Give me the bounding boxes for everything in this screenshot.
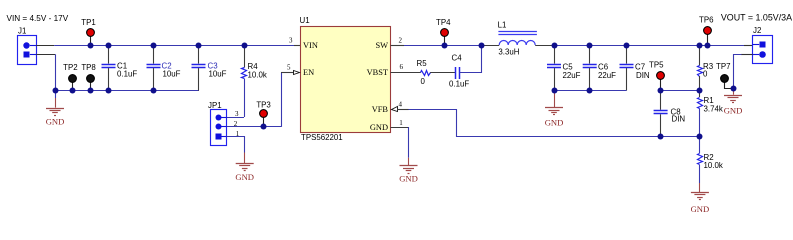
svg-text:GND: GND	[724, 105, 743, 115]
ground GND1 (below J1)	[46, 91, 65, 127]
wire JP1 pin2 row	[227, 126, 281, 128]
node C5 bottom	[552, 88, 558, 94]
wire J1 pin1 stub (black)	[36, 45, 54, 47]
node C1 bottom	[106, 88, 112, 94]
wire EN riser	[281, 72, 283, 127]
node L1 out / C5 top	[552, 43, 558, 49]
testpoint TP8	[81, 63, 96, 91]
node junction dots	[53, 43, 737, 140]
svg-text:GND: GND	[691, 204, 710, 214]
wire VIN top rail	[54, 45, 294, 47]
testpoint TP4	[436, 18, 451, 45]
svg-text:5: 5	[287, 64, 291, 72]
svg-text:VIN: VIN	[303, 41, 318, 50]
wire U1 GND drop	[408, 127, 410, 158]
node C2 top	[151, 43, 157, 49]
svg-text:0: 0	[703, 69, 708, 78]
wire J2 pin2 to GND corner	[734, 55, 742, 89]
svg-text:TPS562201: TPS562201	[301, 133, 343, 142]
svg-text:TP3: TP3	[256, 101, 271, 110]
resistor R2	[698, 136, 723, 183]
ground GND3 (below U1)	[399, 158, 418, 184]
wire JP1 pin1 to GND corner	[227, 137, 245, 153]
node C1 top	[106, 43, 112, 49]
wire bottom GND rail left	[55, 90, 199, 92]
node R1/R2 feedback	[697, 134, 703, 140]
node TP3 junction	[261, 124, 267, 130]
wire C4 to SW node	[460, 46, 482, 73]
node TP8 bottom	[88, 88, 94, 94]
resistor R3	[698, 45, 714, 90]
wire J1 pin2 drop	[55, 54, 57, 90]
wire SW rail	[404, 45, 482, 47]
svg-text:3.74k: 3.74k	[704, 104, 723, 113]
wire R5 to C4 (black)	[430, 72, 455, 74]
node TP1/VIN rail	[88, 43, 94, 49]
ground GND2 (below JP1)	[235, 153, 254, 183]
svg-text:1: 1	[399, 119, 403, 127]
resistor R1	[698, 90, 723, 136]
node C6 bottom	[587, 88, 593, 94]
node C3 top	[196, 43, 202, 49]
node C7 top	[624, 43, 630, 49]
svg-text:6: 6	[400, 63, 404, 71]
capacitor C4	[449, 54, 469, 89]
node TP2 bottom	[70, 88, 76, 94]
wire VFB stub (black)	[397, 109, 409, 111]
ground GND4 (below C5)	[545, 91, 564, 128]
svg-text:TP8: TP8	[81, 63, 96, 72]
svg-text:TP7: TP7	[716, 62, 730, 71]
svg-text:TP5: TP5	[649, 61, 664, 70]
capacitor C1	[102, 45, 138, 91]
svg-text:R5: R5	[417, 59, 428, 68]
wire EN stub (black)	[281, 72, 295, 74]
wire U1 GND pin stub (black)	[391, 127, 409, 129]
svg-text:0.1uF: 0.1uF	[117, 70, 137, 79]
wire J1 pin2 stub (black)	[36, 54, 55, 56]
svg-text:JP1: JP1	[208, 101, 222, 110]
capacitor C6	[583, 45, 616, 91]
svg-text:J2: J2	[753, 26, 761, 35]
connector J2	[753, 36, 773, 64]
node TP6 rail	[705, 43, 711, 49]
svg-text:GND: GND	[370, 123, 388, 132]
wire VIN pin stub	[294, 45, 300, 47]
testpoint TP1	[81, 18, 95, 45]
capacitor C3	[192, 45, 227, 91]
wire VBST stub (black)	[391, 72, 421, 74]
testpoint TP6	[699, 15, 714, 45]
capacitor C5	[547, 45, 581, 91]
svg-text:J1: J1	[18, 26, 26, 35]
svg-text:VIN = 4.5V - 17V: VIN = 4.5V - 17V	[7, 14, 69, 23]
svg-text:GND: GND	[46, 116, 65, 126]
node TP5/C8	[658, 88, 664, 94]
wire SW stub (black)	[391, 45, 405, 47]
testpoint TP7	[716, 62, 733, 88]
svg-text:10uF: 10uF	[163, 70, 181, 79]
node J2 GND corner	[731, 86, 737, 92]
connector J1	[18, 36, 37, 65]
svg-text:3: 3	[289, 37, 293, 45]
node C4 riser/SW	[479, 43, 485, 49]
svg-text:TP1: TP1	[81, 18, 95, 27]
ground GND6 (below R2)	[691, 183, 710, 214]
wire JP1 pin3 to R4	[227, 117, 244, 119]
node C6 top	[587, 43, 593, 49]
svg-text:C4: C4	[452, 54, 463, 63]
svg-text:VOUT = 1.05V/3A: VOUT = 1.05V/3A	[721, 12, 792, 22]
svg-text:EN: EN	[303, 68, 314, 77]
svg-text:SW: SW	[375, 41, 388, 50]
svg-text:3.3uH: 3.3uH	[498, 47, 519, 56]
connector JP1	[211, 110, 227, 146]
node R3 top	[697, 43, 703, 49]
svg-text:10.0k: 10.0k	[248, 71, 267, 80]
wire VFB feedback run	[409, 110, 700, 137]
svg-text:10.0k: 10.0k	[704, 161, 723, 170]
inductor L1	[482, 21, 555, 57]
node C8 bottom / feedback	[658, 134, 664, 140]
resistor R4	[242, 45, 267, 117]
capacitor C2	[147, 45, 181, 91]
svg-text:0: 0	[421, 77, 426, 86]
testpoint TP3	[256, 101, 271, 127]
svg-text:TP2: TP2	[63, 63, 77, 72]
op-amp U1 TPS562201 body	[301, 27, 391, 133]
svg-text:22uF: 22uF	[563, 71, 581, 80]
capacitor C8	[654, 90, 686, 136]
EN input arrow	[294, 71, 300, 75]
svg-text:22uF: 22uF	[598, 71, 616, 80]
capacitor C7	[620, 45, 650, 91]
svg-text:GND: GND	[545, 118, 564, 128]
svg-text:DIN: DIN	[636, 71, 650, 80]
svg-text:L1: L1	[498, 21, 507, 30]
testpoint TP2	[63, 63, 77, 91]
svg-text:0.1uF: 0.1uF	[449, 79, 469, 88]
wire output cap bottom rail	[554, 90, 627, 92]
svg-text:TP6: TP6	[699, 15, 714, 24]
node R3/R1	[697, 88, 703, 94]
svg-text:2: 2	[399, 37, 403, 45]
svg-text:VBST: VBST	[367, 68, 388, 77]
node C2 bottom	[151, 88, 157, 94]
svg-text:DIN: DIN	[672, 114, 686, 123]
svg-text:4: 4	[399, 100, 403, 108]
svg-text:TP4: TP4	[436, 18, 451, 27]
node GND rail left	[53, 88, 59, 94]
svg-text:VFB: VFB	[372, 105, 389, 114]
wire TP5 node to R3 bottom	[661, 90, 700, 92]
wire VOUT to J2 stub (black)	[744, 45, 753, 47]
svg-text:U1: U1	[300, 16, 310, 25]
wire VOUT rail	[554, 45, 744, 47]
wire J2 pin2 stub (black)	[741, 54, 753, 56]
svg-text:GND: GND	[399, 174, 418, 184]
node R4 top	[242, 43, 248, 49]
svg-text:GND: GND	[235, 172, 254, 182]
ground GND5 (below TP7/J2)	[724, 88, 743, 115]
VFB input arrow	[392, 107, 398, 112]
resistor R5	[417, 59, 431, 86]
node TP4/SW	[442, 43, 448, 49]
testpoint TP5	[649, 61, 664, 90]
svg-text:10uF: 10uF	[209, 70, 227, 79]
